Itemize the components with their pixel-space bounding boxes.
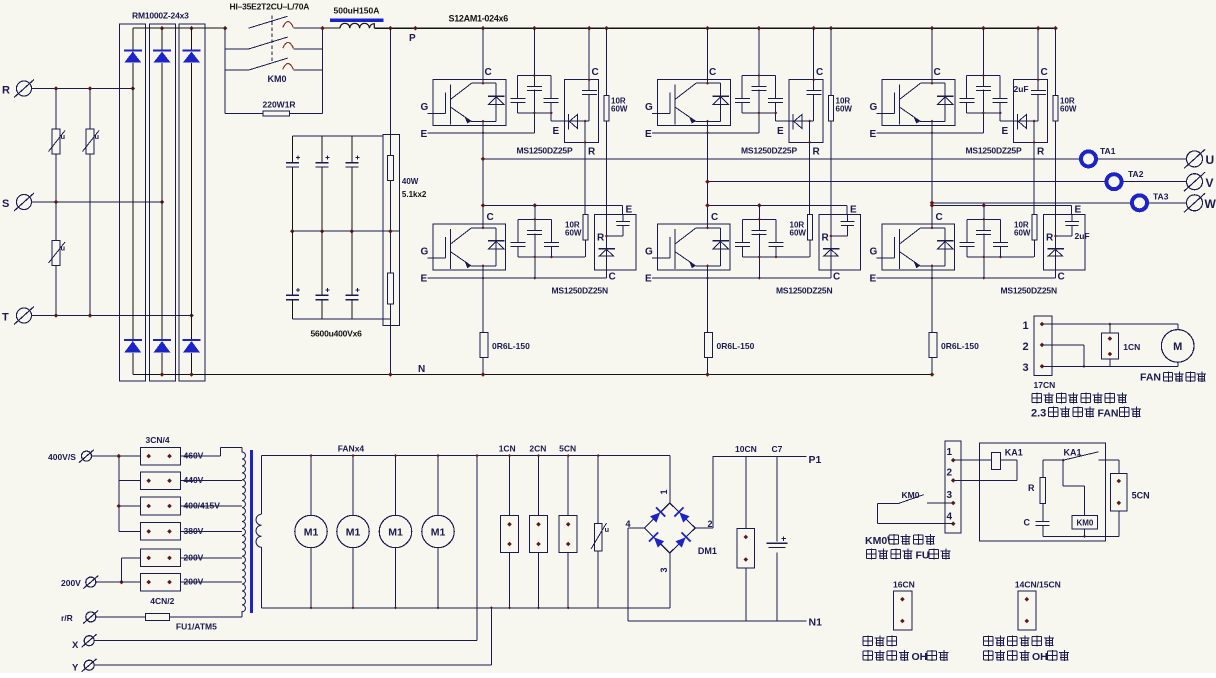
resistor 10R 60W <box>604 96 609 121</box>
electrolytic cap bottom 3 <box>351 231 353 295</box>
CT TA1 <box>1081 151 1096 166</box>
svg-text:G: G <box>421 247 429 258</box>
svg-text:C: C <box>1024 518 1031 528</box>
svg-text:G: G <box>421 102 429 113</box>
upper IGBT cell phase W <box>870 26 1077 278</box>
wire <box>96 616 146 618</box>
svg-text:FU: FU <box>916 550 930 562</box>
svg-text:2: 2 <box>947 468 953 479</box>
connector 1CN <box>1109 324 1111 366</box>
diode top bridge 3 <box>183 50 201 52</box>
igbt freewheel diode <box>495 228 497 266</box>
svg-text:220W1R: 220W1R <box>263 100 296 110</box>
emitter wire <box>428 132 535 134</box>
svg-text:60W: 60W <box>611 105 628 114</box>
17CN pin3 wire <box>1042 365 1178 367</box>
connector 5CN <box>567 456 569 608</box>
N bus <box>133 374 932 376</box>
svg-text:KM0: KM0 <box>1076 519 1093 528</box>
gate resistor 10R60W feed <box>606 28 608 96</box>
KM0 coil branch <box>1062 460 1064 486</box>
note ext thermal sensor <box>983 636 993 647</box>
fan bottom rail <box>262 607 670 609</box>
DM1 pin1 wire <box>669 456 671 503</box>
svg-text:1: 1 <box>659 489 669 494</box>
fan top rail <box>262 455 670 457</box>
node R taps <box>54 86 59 91</box>
svg-text:4: 4 <box>947 512 953 523</box>
KM0 pole 2 <box>225 48 248 50</box>
contactor right riser <box>322 28 324 113</box>
svg-text:5600u400Vx6: 5600u400Vx6 <box>311 329 363 339</box>
svg-text:200V: 200V <box>61 578 81 588</box>
snubber R <box>1042 460 1044 477</box>
electrolytic cap top 2 <box>321 136 323 162</box>
electrolytic cap top 1 <box>291 136 293 162</box>
svg-text:MS1250DZ25P: MS1250DZ25P <box>517 146 573 156</box>
tap wire 200V <box>181 581 242 583</box>
U rail <box>483 158 1187 160</box>
diode bottom bridge 2 <box>153 339 171 341</box>
P1 rail <box>712 455 806 457</box>
igbt gate <box>428 257 446 259</box>
wire <box>323 27 341 29</box>
note shorted <box>863 636 873 647</box>
bridge column 2 <box>161 28 163 50</box>
electrolytic cap bottom 1 <box>291 231 293 295</box>
relay coil KA1 <box>953 459 991 461</box>
note fan fault terminal <box>1032 393 1042 404</box>
contactor left riser <box>224 28 226 113</box>
svg-text:4: 4 <box>626 519 631 529</box>
R stem <box>584 120 587 123</box>
svg-text:C: C <box>609 272 616 283</box>
wire <box>55 89 57 129</box>
tap connector row 3 <box>141 497 181 515</box>
transformer core <box>250 450 253 613</box>
tap connector row 4 <box>141 523 181 541</box>
tap connector row 5 <box>141 549 181 567</box>
svg-text:M1: M1 <box>304 527 319 539</box>
wire S to bridge 2 <box>32 201 163 203</box>
diode bottom bridge 1 <box>124 339 142 341</box>
connector 2CN <box>538 456 540 608</box>
terminal r/R <box>86 612 96 622</box>
tap connector row 1 <box>141 447 181 465</box>
tap wire 380V <box>181 530 242 532</box>
precharge wire <box>225 112 263 114</box>
svg-text:C: C <box>487 212 494 223</box>
clamp diode lower <box>598 248 615 250</box>
fuse FU1/ATM5 <box>146 613 170 620</box>
leg to shunt <box>482 278 484 332</box>
wire snubber to clamp <box>550 113 552 121</box>
wire <box>96 581 141 583</box>
bridge column 1 <box>132 28 134 50</box>
wire <box>170 616 243 618</box>
connector 1CN <box>509 456 511 608</box>
svg-text:V: V <box>1206 176 1214 190</box>
rectifier module 1 <box>119 24 145 381</box>
svg-text:E: E <box>421 274 428 285</box>
bridge column 3 <box>191 28 193 50</box>
fan motor M1 #1 <box>310 456 312 516</box>
snubber cap module <box>518 218 552 220</box>
lower IGBT cell phase V <box>645 133 861 377</box>
svg-text:Y: Y <box>72 663 79 674</box>
cap bank bottom rail <box>292 318 390 320</box>
transformer primary <box>242 447 245 611</box>
svg-text:500uH150A: 500uH150A <box>334 6 380 16</box>
svg-text:OH: OH <box>1032 651 1048 663</box>
detect box <box>980 443 1106 541</box>
connector 4pin <box>945 441 961 533</box>
svg-text:3CN/4: 3CN/4 <box>146 435 170 445</box>
svg-text:5.1kx2: 5.1kx2 <box>402 190 427 199</box>
svg-text:400V/S: 400V/S <box>48 452 76 462</box>
emitter wire <box>428 277 607 279</box>
rectifier module 3 <box>179 24 205 381</box>
wire block to N <box>389 325 391 374</box>
200V bus <box>121 558 123 582</box>
Y wire <box>94 664 491 666</box>
svg-text:10CN: 10CN <box>735 444 757 454</box>
igbt freewheel diode <box>495 83 497 121</box>
DM1 diode BR <box>674 532 691 549</box>
connector 17CN <box>1034 316 1052 376</box>
clamp entry <box>622 205 624 214</box>
upper IGBT cell phase V <box>645 26 852 278</box>
transformer secondary <box>261 456 263 515</box>
inductor 500uH150A <box>340 23 374 28</box>
svg-text:2.3: 2.3 <box>1031 408 1046 420</box>
svg-text:KM0: KM0 <box>902 490 920 500</box>
svg-text:HI–35E2T2CU–L/70A: HI–35E2T2CU–L/70A <box>230 2 310 12</box>
svg-text:R: R <box>1028 483 1035 493</box>
svg-text:2uF: 2uF <box>1075 231 1090 241</box>
svg-text:RM1000Z-24x3: RM1000Z-24x3 <box>132 11 189 21</box>
tap wire 400/415V <box>181 505 242 507</box>
svg-text:MS1250DZ25N: MS1250DZ25N <box>552 286 608 296</box>
DM1 diode BL <box>649 532 666 549</box>
diode bottom bridge 3 <box>183 339 201 341</box>
svg-text:FAN: FAN <box>1140 372 1161 384</box>
17CN pin1 wire <box>1042 323 1178 325</box>
svg-text:60W: 60W <box>565 229 582 238</box>
svg-text:16CN: 16CN <box>893 580 915 590</box>
node S tap <box>54 200 59 205</box>
tap wire 200V <box>181 557 242 559</box>
svg-text:DM1: DM1 <box>698 546 717 556</box>
igbt gate <box>428 112 446 114</box>
resistor 5.1k lower <box>388 273 394 304</box>
svg-text:N1: N1 <box>809 617 823 629</box>
varistor u R-T <box>86 129 94 154</box>
clamp module box lower <box>595 215 637 271</box>
svg-text:T: T <box>2 312 9 324</box>
svg-text:M1: M1 <box>388 527 403 539</box>
svg-text:2CN: 2CN <box>529 444 546 454</box>
svg-text:E: E <box>421 129 428 140</box>
varistor u R-S <box>52 129 60 154</box>
clamp diode <box>551 120 589 122</box>
wire <box>119 530 141 532</box>
wire R to bridge 1 <box>32 88 133 90</box>
svg-text:40W: 40W <box>402 177 419 186</box>
svg-text:R: R <box>597 233 605 244</box>
emitter stem <box>482 121 484 133</box>
X wire <box>94 640 477 642</box>
wire <box>55 202 57 241</box>
capacitor C7 <box>776 456 778 621</box>
svg-text:C7: C7 <box>772 444 783 454</box>
svg-text:1CN: 1CN <box>1123 342 1140 352</box>
DM1 pin2 wire <box>695 527 713 529</box>
wire <box>92 455 141 457</box>
svg-text:u: u <box>605 525 610 534</box>
terminal S <box>17 195 32 210</box>
svg-text:5CN: 5CN <box>1132 491 1150 501</box>
cap bank middle rail <box>291 230 400 232</box>
svg-text:TA3: TA3 <box>1153 192 1169 202</box>
note open trips OH fault <box>863 650 873 661</box>
snubber C <box>1036 521 1050 523</box>
terminal 400V/S <box>82 451 92 461</box>
wire <box>89 89 91 129</box>
IGBT module MS1250DZ25N <box>433 224 506 270</box>
svg-text:M1: M1 <box>346 527 361 539</box>
svg-text:N: N <box>418 364 425 375</box>
DM1 bridge diamond <box>644 503 695 553</box>
wire <box>55 154 57 202</box>
igbt body <box>449 229 451 269</box>
note open trips FU fault <box>867 549 877 560</box>
tap connector row 6 <box>141 573 181 591</box>
svg-text:TA1: TA1 <box>1100 146 1116 156</box>
KM0 pole 1 <box>249 16 288 28</box>
DM1 diode TL <box>649 507 666 524</box>
N1 rail <box>628 620 806 622</box>
choke core bar <box>330 19 383 22</box>
P bus <box>374 27 1055 29</box>
svg-text:14CN/15CN: 14CN/15CN <box>1015 580 1061 590</box>
svg-text:3: 3 <box>659 567 669 572</box>
fan varistor u <box>597 456 599 608</box>
rectifier module 2 <box>150 24 176 381</box>
igbt body <box>449 84 451 124</box>
svg-text:P1: P1 <box>809 454 822 466</box>
svg-text:0R6L-150: 0R6L-150 <box>492 341 530 351</box>
svg-text:u: u <box>61 244 66 253</box>
emitter stem <box>482 266 484 278</box>
terminal V <box>1187 174 1203 190</box>
tap wire 460V <box>181 455 221 457</box>
svg-text:R: R <box>2 85 10 97</box>
svg-text:TA2: TA2 <box>1128 169 1144 179</box>
snubber bottom / R link <box>518 256 585 258</box>
P+ rail from bridges <box>133 27 225 29</box>
fan motor M1 #2 <box>352 456 354 516</box>
svg-text:FANx4: FANx4 <box>338 444 365 454</box>
DM1 pin3 wire <box>669 553 671 608</box>
terminal Y <box>84 660 94 670</box>
W rail <box>932 202 1187 204</box>
diode top bridge 1 <box>124 50 142 52</box>
DM1 diode TR <box>674 507 691 524</box>
svg-text:17CN: 17CN <box>1034 380 1056 390</box>
svg-text:X: X <box>72 640 79 651</box>
snubber cap feed <box>534 205 536 229</box>
KM0 linkage dashed <box>271 16 273 63</box>
bleeder resistor block 40W 5.1kx2 <box>383 135 399 326</box>
wire P to cap bank <box>389 28 391 134</box>
KM0 pole 3 <box>225 69 248 71</box>
DM1 pin4 wire <box>628 527 644 529</box>
svg-text:u: u <box>61 132 66 141</box>
wire P to collector <box>482 28 484 83</box>
svg-text:W: W <box>1205 197 1216 211</box>
svg-text:5CN: 5CN <box>559 444 576 454</box>
terminal 200V <box>86 577 96 587</box>
terminal X <box>84 636 94 646</box>
terminal W <box>1187 195 1203 211</box>
svg-text:E: E <box>626 205 633 216</box>
clamp cap <box>616 221 630 223</box>
svg-text:r/R: r/R <box>61 613 73 623</box>
terminal U <box>1187 151 1203 167</box>
svg-text:S: S <box>2 198 9 210</box>
17CN pin2 wire <box>1042 344 1084 346</box>
node T taps <box>54 313 59 318</box>
bottom net <box>1043 535 1119 537</box>
KM0 coil box <box>1072 516 1097 530</box>
svg-text:C: C <box>485 67 492 78</box>
svg-text:OH: OH <box>912 651 928 663</box>
diode top bridge 2 <box>153 50 171 52</box>
svg-text:KA1: KA1 <box>1064 448 1082 458</box>
svg-text:KM0: KM0 <box>268 74 287 84</box>
svg-text:1: 1 <box>947 447 953 458</box>
P bus taps <box>481 26 486 31</box>
phase leg <box>482 133 484 229</box>
resistor 5.1k upper <box>388 155 394 180</box>
wire <box>119 505 141 507</box>
resistor 220W1R <box>263 111 289 116</box>
svg-text:u: u <box>95 132 100 141</box>
svg-text:M1: M1 <box>431 527 446 539</box>
IGBT module MS1250DZ25P <box>433 79 506 125</box>
svg-text:S12AM1-024x6: S12AM1-024x6 <box>449 14 509 24</box>
snubber cap module <box>517 75 551 77</box>
fan motor M1 #4 <box>437 456 439 516</box>
svg-text:E: E <box>553 126 560 137</box>
wire <box>55 266 57 316</box>
svg-text:KA1: KA1 <box>1005 448 1023 458</box>
svg-text:4CN/2: 4CN/2 <box>150 596 174 606</box>
lower rail <box>483 204 623 206</box>
CT TA2 <box>1107 174 1122 189</box>
terminal T <box>17 308 32 323</box>
fan motor M <box>1177 324 1179 330</box>
electrolytic cap top 3 <box>351 136 353 162</box>
svg-text:3: 3 <box>1023 362 1029 374</box>
clamp cap feed <box>588 28 590 90</box>
svg-text:2uF: 2uF <box>1014 84 1029 94</box>
connector 10CN <box>745 456 747 621</box>
relay contact KA1 <box>1043 459 1063 461</box>
CT TA3 <box>1132 195 1147 210</box>
svg-text:U: U <box>1206 153 1215 167</box>
svg-text:KM0\: KM0\ <box>865 535 890 547</box>
fan motor M1 #3 <box>395 456 397 516</box>
svg-text:P: P <box>409 33 416 44</box>
svg-text:2: 2 <box>1023 341 1029 353</box>
V rail <box>708 181 1187 183</box>
tap connector row 2 <box>141 472 181 490</box>
lower IGBT cell phase W <box>870 133 1086 377</box>
cap bank top rail <box>292 135 383 137</box>
svg-text:1CN: 1CN <box>499 444 516 454</box>
wire T to bridge 3 <box>32 315 192 317</box>
svg-text:R: R <box>588 147 596 158</box>
terminal R <box>17 81 32 96</box>
wire <box>89 154 91 316</box>
tap select bus <box>118 456 120 531</box>
connector 5CN <box>1111 474 1127 512</box>
svg-text:2: 2 <box>708 519 713 529</box>
svg-text:3: 3 <box>947 490 953 501</box>
svg-text:FAN: FAN <box>1098 408 1119 420</box>
note open trips OH fault 2 <box>983 650 993 661</box>
clamp module box <box>565 80 599 143</box>
snubber cap feed <box>533 28 535 86</box>
wire <box>119 480 141 482</box>
shunt 0R6L-150 <box>480 332 488 357</box>
svg-text:1: 1 <box>1023 320 1029 332</box>
varistor u S-T <box>52 241 60 266</box>
svg-text:FU1/ATM5: FU1/ATM5 <box>176 622 217 632</box>
svg-text:M: M <box>1173 341 1182 353</box>
svg-text:C: C <box>592 67 599 78</box>
electrolytic cap bottom 2 <box>321 231 323 295</box>
tap wire 440V <box>181 480 242 482</box>
